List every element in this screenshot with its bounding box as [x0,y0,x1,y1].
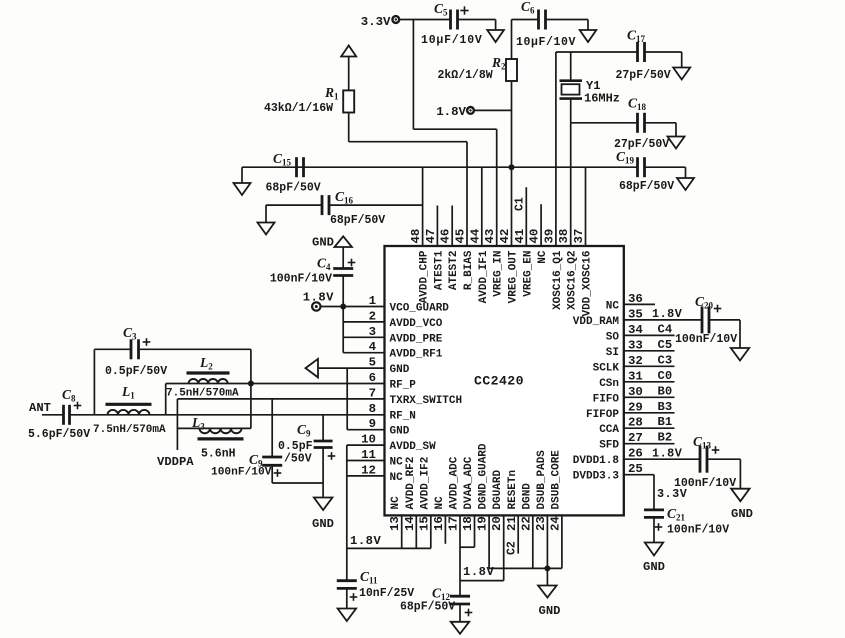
svg-text:AVDD_ADC: AVDD_ADC [449,456,461,509]
svg-text:16: 16 [432,516,446,531]
wire DGND_GUARD pin 19 down [488,515,490,568]
inductor L3 5.6nH [177,415,251,461]
wire DSUB_PADS pin 23 down [546,515,548,568]
pin 39 label [542,229,564,310]
wire 3.3V rail to C5 [399,19,450,21]
svg-text:NC: NC [606,300,620,312]
svg-text:21: 21 [505,516,519,531]
svg-text:NC: NC [434,496,446,510]
svg-text:C9: C9 [297,422,311,439]
svg-text:DGND_GUARD: DGND_GUARD [478,443,490,509]
svg-text:9: 9 [369,417,376,431]
svg-text:35: 35 [628,307,643,321]
svg-text:XOSC16_Q2: XOSC16_Q2 [567,251,579,310]
svg-text:100nF/10V: 100nF/10V [211,467,272,479]
ground (C19) [677,178,694,190]
wire DVAA_ADC pin 18 link [460,515,475,547]
svg-text:SO: SO [606,331,620,343]
svg-text:44: 44 [468,228,482,243]
svg-text:C5: C5 [434,1,448,18]
pin 18 label [461,456,475,531]
pin 24 label [549,450,563,531]
ground arrow left (pin5 GND) [306,359,319,378]
wire C6 to ground [546,20,589,31]
svg-text:40: 40 [528,229,542,244]
svg-text:10: 10 [361,433,376,447]
wire TXRX down to L3 [176,399,178,450]
pin 19 label [476,443,490,531]
svg-text:VDD_RAM: VDD_RAM [573,316,620,328]
svg-text:31: 31 [628,369,643,383]
svg-text:GND: GND [539,604,561,618]
wire ATEST1 pin 47 stub [436,206,438,247]
capacitor C4 100nF/10V [270,256,355,286]
node 1.8V (pin26) [652,447,683,461]
svg-text:29: 29 [628,400,643,414]
junction 1.8V net [509,164,515,170]
ground arrow up (C4) [312,236,352,269]
inductor L1 7.5nH/570mA [93,384,166,436]
wire pin 14 down [415,515,417,548]
pin 36 label [606,292,643,313]
svg-text:B3: B3 [658,400,673,414]
svg-text:SI: SI [606,347,619,359]
svg-text:VDD_XOSC16: VDD_XOSC16 [582,251,594,317]
svg-text:C13: C13 [693,434,712,451]
svg-text:C8: C8 [62,387,76,404]
svg-text:7.5nH/570mA: 7.5nH/570mA [166,388,239,400]
svg-text:C21: C21 [667,506,686,523]
ground (C16) [258,223,275,235]
ground (C20) [731,348,749,361]
pin 37 label [572,229,594,317]
svg-text:AVDD_RF1: AVDD_RF1 [390,349,443,361]
svg-text:AVDD_CHP: AVDD_CHP [419,250,431,303]
wire RF_P line [166,383,385,385]
pin 6 label [369,371,417,392]
wire C3 to RF_P node [139,349,251,383]
capacitor C12 68pF/50V [400,586,472,622]
svg-text:C16: C16 [335,189,354,206]
wire C5 to ground [458,20,496,31]
pin 11 label [361,448,403,469]
svg-text:ATEST1: ATEST1 [433,250,445,290]
svg-text:27pF/50V: 27pF/50V [616,69,671,82]
svg-text:SFD: SFD [599,440,619,452]
svg-text:68pF/50V: 68pF/50V [266,182,321,195]
wire C6 left to R2 top [512,19,539,21]
capacitor C6 10uF/10V [516,0,576,49]
wire C16 line to pin 48 [329,204,423,206]
svg-text:11: 11 [361,448,376,462]
svg-text:C2: C2 [506,541,519,555]
wire AVDD_SW pin10 to 1.8V [347,445,385,581]
svg-text:15: 15 [417,516,431,531]
wire TXRX_SWITCH pin 7 [177,398,384,400]
svg-text:32: 32 [628,354,643,368]
pin 28 label [599,416,643,437]
svg-text:68pF/50V: 68pF/50V [619,180,674,193]
capacitor C20 100nF/10V [675,294,737,346]
wire 1.8V bus pins 1-4 [342,307,344,353]
pin 35 label [573,307,643,328]
svg-text:DVAA_ADC: DVAA_ADC [463,456,475,509]
svg-text:ATEST2: ATEST2 [448,251,460,291]
svg-text:B0: B0 [658,384,673,398]
svg-text:7.5nH/570mA: 7.5nH/570mA [93,424,166,436]
svg-text:XOSC16_Q1: XOSC16_Q1 [552,250,564,310]
svg-text:17: 17 [447,516,461,531]
svg-text:GND: GND [731,507,753,521]
pin 45 label [454,229,476,290]
ground (C17) [673,68,690,80]
pin 15 label [417,457,431,531]
svg-text:NC: NC [390,496,402,510]
svg-text:5.6pF/50V: 5.6pF/50V [28,428,90,441]
svg-text:43kΩ/1/16W: 43kΩ/1/16W [264,102,333,115]
pin 30 label [593,385,643,406]
svg-text:AVDD_IF2: AVDD_IF2 [419,457,431,510]
node 1.8V (C12) [463,565,494,579]
wire GND pin 5 [318,367,385,369]
wire C20 to ground [709,320,740,348]
wire 1.8V to AVDD_CHP pin 48 [422,167,424,246]
ground (RF C9) [312,498,334,532]
op-amp U1 CC2420 body [385,246,624,515]
svg-text:30: 30 [628,385,643,399]
ground (C6) [580,30,597,42]
svg-text:48: 48 [409,229,423,244]
svg-text:1.8V: 1.8V [350,534,381,548]
svg-text:2: 2 [369,309,376,323]
svg-text:GND: GND [390,426,410,438]
wire NC pin 12 [347,475,385,477]
capacitor C16 68pF/50V [322,189,385,227]
pin 13 label [388,496,402,531]
pin 38 label [557,229,579,310]
svg-text:C11: C11 [360,569,378,586]
svg-text:C1: C1 [514,197,527,211]
node C2 (RESETn pin 21) [506,515,519,555]
wire NC pin 11 [347,460,385,462]
svg-text:1.8V: 1.8V [436,105,466,119]
svg-text:VREG_OUT: VREG_OUT [508,250,520,303]
svg-text:NC: NC [390,457,404,469]
wire R1 to R_BIAS pin 45 [349,142,467,246]
wire L2 left leg [165,384,167,415]
node 1.8V terminal (left) [303,291,334,311]
svg-text:23: 23 [534,516,548,531]
capacitor C13 100nF/10V [674,434,736,490]
svg-text:B1: B1 [658,415,673,429]
wire C16 to ground [266,205,322,222]
svg-text:AVDD_IF1: AVDD_IF1 [478,250,490,303]
node ANT [29,401,64,415]
junction pin1 1.8V node [340,304,346,310]
svg-text:VDDPA: VDDPA [157,455,194,469]
svg-text:12: 12 [361,463,376,477]
svg-text:3: 3 [369,325,376,339]
capacitor C9b 0.5pF/50V [278,415,335,498]
wire pin 15 down [430,515,432,548]
svg-text:68pF/50V: 68pF/50V [400,601,455,614]
resistor R1 43kOhm [264,57,354,142]
capacitor C3 0.5pF/50V [105,325,167,378]
svg-text:RF_N: RF_N [390,410,416,422]
svg-text:5: 5 [369,356,376,370]
svg-text:RF_P: RF_P [390,380,417,392]
wire GND pin 9 link [347,368,384,430]
svg-text:GND: GND [312,517,334,531]
wire C9 gnd link [272,482,323,484]
svg-text:100nF/10V: 100nF/10V [675,333,737,346]
wire AVDD_VCO pin 2 [343,321,384,323]
svg-text:42: 42 [498,229,512,244]
svg-text:3.3V: 3.3V [361,15,391,29]
svg-text:10nF/25V: 10nF/25V [359,587,414,600]
junction bottom GND [544,565,550,571]
capacitor C11 10nF/25V [337,569,415,609]
node 1.8V (bottom left) [350,534,381,548]
wire DVDD3.3 pin 25 down [624,475,654,510]
wire AVDD_RF1 pin 4 [343,352,384,354]
wire XOSC16_Q2 pin 38 [570,123,572,246]
pin 44 label [468,228,490,303]
pin 2 label [369,309,443,330]
ground (C13) [731,489,753,521]
svg-text:C5: C5 [658,338,673,352]
svg-text:TXRX_SWITCH: TXRX_SWITCH [390,395,463,407]
svg-text:VREG_EN: VREG_EN [522,251,534,297]
wire ATEST2 pin 46 stub [451,206,453,247]
pin 46 label [439,229,461,290]
node B2 (pin 27) [624,431,675,445]
pin 31 label [599,369,643,390]
svg-text:C4: C4 [317,256,331,273]
svg-text:FIFOP: FIFOP [586,409,619,421]
svg-text:14: 14 [403,516,417,531]
ground (C11) [338,609,357,622]
svg-text:SCLK: SCLK [593,362,620,374]
node C1 (VREG_EN pin 41) [514,187,527,246]
inductor L2 7.5nH/570mA [166,355,239,400]
node VDDPA [157,455,194,469]
node B1 (pin 28) [624,415,675,429]
svg-text:3.3V: 3.3V [657,487,688,501]
capacitor C5 10uF/10V [421,1,483,47]
svg-text:AVDD_VCO: AVDD_VCO [390,318,443,330]
wire RF_N main line [69,414,385,416]
pin 5 label [369,356,410,377]
svg-text:R2: R2 [491,55,506,72]
svg-text:6: 6 [369,371,376,385]
svg-text:GND: GND [643,560,665,574]
svg-text:4: 4 [369,340,377,354]
crystal Y1 16MHz [560,52,621,123]
svg-text:10μF/10V: 10μF/10V [516,36,576,49]
svg-text:20: 20 [490,516,504,531]
svg-text:27: 27 [628,431,643,445]
wire Q2 to C18 [571,122,638,124]
svg-text:C3: C3 [123,325,137,342]
svg-text:25: 25 [628,462,643,476]
svg-text:100nF/10V: 100nF/10V [667,524,729,537]
node 1.8V terminal (top) [436,105,474,119]
svg-text:R_BIAS: R_BIAS [463,250,475,290]
svg-text:19: 19 [476,516,490,531]
wire 1.8V to DGUARD pin 20 [460,515,504,580]
pin 34 label [606,323,644,344]
svg-text:NC: NC [390,472,404,484]
svg-text:CCA: CCA [599,424,619,436]
svg-text:DGND: DGND [521,483,533,510]
wire bottom GND bus [489,567,562,569]
svg-text:37: 37 [572,229,586,244]
node B3 (pin 29) [624,400,675,414]
pin 40 label [528,229,550,264]
wire 1.8V terminal to R2 [474,109,512,111]
resistor R2 2kOhm [438,20,518,111]
power arrow (R1) [341,46,356,57]
svg-text:R1: R1 [324,85,339,102]
svg-text:0.5pF/50V: 0.5pF/50V [105,365,167,378]
capacitor C8 5.6pF/50V [28,387,90,441]
wire XOSC16_Q1 pin 39 [555,52,557,246]
pin 14 label [403,457,417,531]
svg-text:GND: GND [390,364,410,376]
svg-text:8: 8 [369,402,376,416]
svg-text:46: 46 [439,229,453,244]
pin 25 label [573,462,643,483]
wire R2 down to VREG_OUT pin 42 [511,110,513,246]
svg-text:C0: C0 [658,369,673,383]
pin 21 label [505,470,519,531]
pin 33 label [606,338,643,359]
node B0 (pin 30) [624,384,675,398]
pin 9 label [369,417,410,438]
capacitor C19 68pF/50V [616,149,674,193]
svg-text:C15: C15 [273,151,292,168]
wire Q1 top rail [556,51,638,53]
pin 3 label [369,325,443,346]
wire C13 to ground [707,459,740,489]
svg-text:AVDD_RF2: AVDD_RF2 [405,457,417,510]
svg-text:AVDD_PRE: AVDD_PRE [390,333,443,345]
svg-text:33: 33 [628,338,643,352]
wire NC pin 16 stub [444,515,446,543]
junction RF_P node [248,381,254,387]
wire C17 to ground [645,52,682,68]
pin 22 label [519,483,533,531]
capacitor C18 27pF/50V [614,96,669,152]
capacitor C17 27pF/50V [616,28,671,83]
svg-text:1.8V: 1.8V [652,307,683,321]
svg-text:45: 45 [454,229,468,244]
wire 1.8V to pins 13-15 [347,547,431,549]
node 3.3V supply terminal [361,15,399,29]
svg-text:16MHz: 16MHz [584,92,620,106]
svg-text:C19: C19 [616,149,635,166]
pin 12 label [361,463,403,484]
svg-text:/50V: /50V [284,453,312,466]
ground (digital GND) [538,568,560,618]
pin 27 label [599,431,643,452]
svg-text:DVDD3.3: DVDD3.3 [573,471,620,483]
capacitor C21 100nF/10V [644,506,729,543]
node C0 (pin 31) [624,369,675,383]
node 3.3V (pin25) [657,487,688,501]
svg-text:24: 24 [549,516,563,531]
wire 3.3V down to VREG_IN [413,20,496,247]
wire NC pin 36 stub [624,303,655,305]
svg-text:C18: C18 [628,96,647,113]
pin 32 label [593,354,643,375]
svg-text:ANT: ANT [29,401,51,415]
ground (C15 left) [234,167,251,195]
svg-text:NC: NC [537,250,549,264]
svg-text:B2: B2 [658,431,673,445]
svg-text:CC2420: CC2420 [474,374,524,389]
svg-text:38: 38 [557,229,571,244]
svg-text:FIFO: FIFO [593,393,620,405]
ground (C12) [451,622,469,634]
svg-text:DSUB_PADS: DSUB_PADS [536,450,548,510]
wire 1.8V to VDD_XOSC16 pin 37 [585,167,587,246]
svg-text:C17: C17 [627,28,646,45]
pin 1 label [369,294,450,315]
svg-text:28: 28 [628,416,643,430]
svg-text:C4: C4 [658,322,673,336]
wire C18 to ground [645,123,677,137]
svg-text:VREG_IN: VREG_IN [493,251,505,297]
wire 1.8V to VCO_GUARD pin 1 [321,306,385,308]
wire C4 to pin1 node [342,276,344,307]
svg-text:5.6nH: 5.6nH [201,448,236,461]
pin 48 label [409,229,431,304]
pin 26 label [573,447,643,468]
pin 17 label [447,456,461,531]
svg-text:RESETn: RESETn [507,470,519,510]
wire VDD_RAM pin 35 to C20 [624,319,702,321]
svg-text:34: 34 [628,323,643,337]
svg-text:22: 22 [519,516,533,531]
pin 42 label [498,229,520,304]
pin 20 label [490,469,504,531]
wire pin 13 down [401,515,403,548]
svg-text:13: 13 [388,516,402,531]
svg-text:C3: C3 [658,353,673,367]
svg-text:AVDD_SW: AVDD_SW [390,441,437,453]
svg-text:39: 39 [542,229,556,244]
svg-text:68pF/50V: 68pF/50V [330,214,385,227]
pin 43 label [483,229,505,297]
node 1.8V (pin35) [652,307,683,321]
pin 41 label [513,229,535,297]
node C5 (pin 33) [624,338,675,352]
svg-text:41: 41 [513,229,527,244]
node C3 (pin 32) [624,353,675,367]
svg-text:C20: C20 [695,294,714,311]
svg-text:DSUB_CORE: DSUB_CORE [551,450,563,510]
wire 1.8V to AVDD_IF1 pin 44 [481,167,483,246]
wire AVDD_PRE pin 3 [343,336,384,338]
ground (C5) [487,30,504,42]
wire NC pin 40 stub [540,204,542,246]
wire DGND pin 22 down [532,515,534,568]
wire 1.8V distribution line [242,166,638,168]
svg-text:0.5pF: 0.5pF [278,440,313,453]
svg-text:10μF/10V: 10μF/10V [421,34,483,47]
